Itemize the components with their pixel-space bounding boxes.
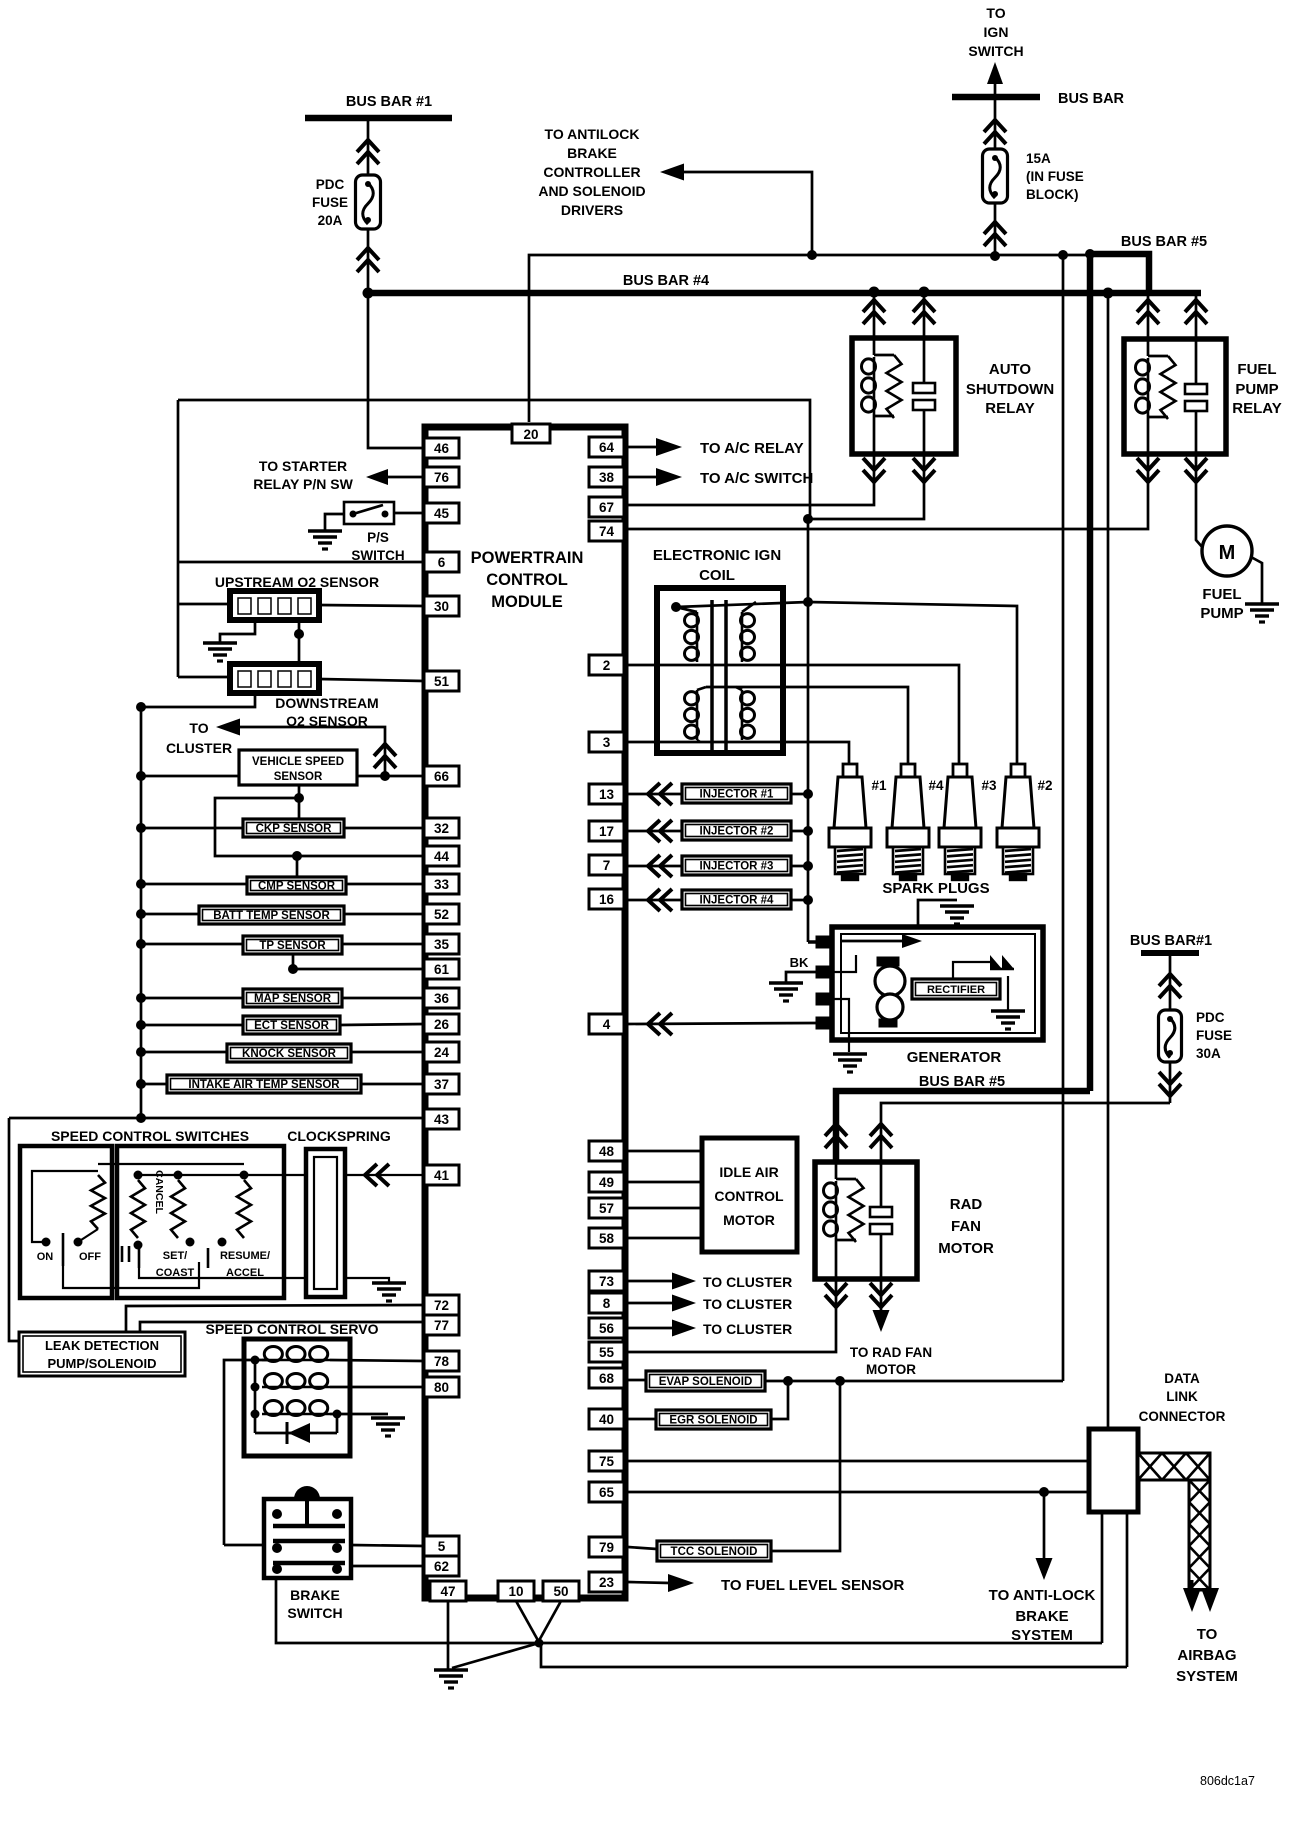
svg-text:FUEL: FUEL xyxy=(1237,361,1276,378)
svg-text:62: 62 xyxy=(434,1559,449,1574)
fuse F2 15A in fuse block xyxy=(983,149,1008,203)
ground speed control servo xyxy=(371,1416,405,1420)
svg-text:P/S: P/S xyxy=(367,530,389,545)
svg-text:TO CLUSTER: TO CLUSTER xyxy=(703,1296,792,1312)
pin 76 xyxy=(424,467,459,487)
sensor VEHICLE SPEED SENSOR xyxy=(239,750,357,785)
svg-text:BUS BAR#1: BUS BAR#1 xyxy=(1130,933,1212,949)
node junction servo coil3 / diode xyxy=(333,1410,342,1419)
switch contact bar left xyxy=(121,1246,124,1262)
svg-text:PUMP: PUMP xyxy=(1235,381,1278,398)
wire pin 10 to ground junction xyxy=(516,1601,540,1644)
svg-text:SPARK PLUGS: SPARK PLUGS xyxy=(882,880,989,897)
wire brake switch to ground junction xyxy=(276,1578,539,1643)
svg-text:MOTOR: MOTOR xyxy=(723,1212,775,1228)
pin 62 xyxy=(424,1556,459,1576)
svg-text:DRIVERS: DRIVERS xyxy=(561,202,623,218)
node junction antilock wire / ignition line xyxy=(807,250,817,260)
brake switch bar row3 xyxy=(273,1561,345,1566)
svg-text:47: 47 xyxy=(440,1584,455,1599)
brake switch contact dots row1 xyxy=(272,1509,282,1519)
svg-text:TO: TO xyxy=(189,720,208,736)
inductor servo coil 3 xyxy=(262,1413,330,1416)
wire bus bar to fuse 15A xyxy=(994,100,997,150)
bus bar #5 top segment xyxy=(1090,254,1149,293)
svg-text:79: 79 xyxy=(599,1540,614,1555)
svg-text:BLOCK): BLOCK) xyxy=(1026,187,1079,202)
pin 52 xyxy=(424,904,459,924)
pin 16 xyxy=(589,889,624,909)
svg-text:#3: #3 xyxy=(981,778,997,793)
svg-text:INTAKE AIR TEMP SENSOR: INTAKE AIR TEMP SENSOR xyxy=(188,1079,340,1091)
pin 80 xyxy=(424,1377,459,1397)
node junction rail / injector #4 xyxy=(803,895,813,905)
resistor R_resume xyxy=(237,1180,251,1238)
pin 44 xyxy=(424,846,459,866)
node junction sensor bus / TP xyxy=(136,939,146,949)
svg-text:DOWNSTREAM: DOWNSTREAM xyxy=(275,695,378,711)
pin 48 xyxy=(589,1141,624,1161)
svg-text:SHUTDOWN: SHUTDOWN xyxy=(966,381,1054,398)
svg-text:TO RAD FAN: TO RAD FAN xyxy=(850,1345,932,1360)
generator diode pack xyxy=(990,955,1014,969)
wire on/off switch output xyxy=(63,1262,199,1288)
wire bus bar #4 riser to data link connector xyxy=(1107,293,1110,1429)
svg-text:ON: ON xyxy=(37,1251,54,1263)
pin 3 xyxy=(589,732,624,752)
wire P/S switch to ground xyxy=(325,514,344,530)
servo common bus xyxy=(254,1360,257,1433)
wire pin 2 to coil and spark plug 3 xyxy=(628,665,959,764)
wire speed control box left edge xyxy=(9,1118,19,1341)
svg-text:CKP SENSOR: CKP SENSOR xyxy=(256,823,333,835)
wire pin 50 to ground junction xyxy=(536,1601,561,1646)
wire data link return (line B) xyxy=(541,1643,1127,1667)
svg-text:IDLE AIR: IDLE AIR xyxy=(719,1164,778,1180)
svg-text:TO FUEL LEVEL SENSOR: TO FUEL LEVEL SENSOR xyxy=(721,1577,905,1594)
wire sensor bus to CKP xyxy=(141,827,243,830)
pin 78 xyxy=(424,1351,459,1371)
svg-text:26: 26 xyxy=(434,1017,450,1032)
pin 75 xyxy=(589,1451,624,1471)
svg-text:TO: TO xyxy=(1197,1626,1218,1643)
svg-text:SET/: SET/ xyxy=(163,1250,187,1262)
node contact ON xyxy=(42,1238,51,1247)
wire ground junction to data link (line A) xyxy=(539,1642,1102,1645)
generator brush top xyxy=(877,957,899,966)
harness (shielded) data link to airbag vertical xyxy=(1189,1480,1210,1590)
connector chevron ASD contact feed xyxy=(913,300,935,312)
wire coil to spark plug 4 xyxy=(706,687,908,764)
node junction sensor bus / knock xyxy=(136,1047,146,1057)
node junction pin 65 / anti-lock xyxy=(1039,1487,1049,1497)
svg-text:65: 65 xyxy=(599,1485,615,1500)
wire pin 47 to ground xyxy=(447,1601,450,1669)
connector chevron on fuse 20A wire (lower) xyxy=(357,248,379,260)
wire sensor bus to TP xyxy=(141,943,243,946)
connector chevron injector #3 xyxy=(648,855,660,877)
wire injector #1 to ASD rail xyxy=(791,793,808,796)
wire injector #4 to ASD rail xyxy=(791,899,808,902)
svg-text:BUS BAR #4: BUS BAR #4 xyxy=(623,273,709,289)
node junction ignition line / bus bar #5 riser xyxy=(1085,249,1095,259)
switch lever set xyxy=(138,1248,141,1268)
brake switch contact dots row2 xyxy=(272,1543,282,1553)
svg-text:BUS BAR #1: BUS BAR #1 xyxy=(346,94,432,110)
resistor R_set xyxy=(171,1180,185,1238)
wire CKP to pin 32 xyxy=(344,827,424,830)
connector chevron injector #2 xyxy=(648,820,660,842)
svg-text:OFF: OFF xyxy=(79,1251,101,1263)
pin 66 xyxy=(424,766,459,786)
wire ground junction diagonal to ground xyxy=(452,1643,539,1668)
node junction bus bar #4 / data link feed riser xyxy=(1103,288,1114,299)
generator brush bottom xyxy=(879,1019,897,1027)
wire sensor bus to intake air temp xyxy=(141,1083,167,1086)
svg-text:VEHICLE SPEED: VEHICLE SPEED xyxy=(252,756,344,768)
module U1 POWERTRAIN CONTROL MODULE box xyxy=(425,427,625,1598)
wire servo coil2 to pin 80 xyxy=(330,1386,424,1389)
svg-text:33: 33 xyxy=(434,877,450,892)
wire ASD relay coil return to pin 67 xyxy=(628,454,874,505)
wire bus bar #4 to ASD relay coil xyxy=(873,293,876,338)
node junction TP / pin 61 xyxy=(288,964,298,974)
wire pin 64 to A/C relay xyxy=(628,446,656,449)
wire TP sensor to pin 61 xyxy=(293,954,424,969)
node junction 15A fuse / ignition line xyxy=(990,251,1000,261)
wire pin 23 to fuel level sensor xyxy=(628,1582,670,1583)
node junction bus bar #4 / ASD relay contact feed xyxy=(919,287,930,298)
wire ECT to pin 26 xyxy=(340,1024,424,1025)
connector chevron ASD coil return xyxy=(863,458,885,470)
motor M2 IDLE AIR CONTROL MOTOR box xyxy=(702,1138,797,1252)
solenoid INJECTOR #3 xyxy=(682,856,791,875)
wire upstream O2 to heater feed xyxy=(178,603,230,606)
connector chevron above 15A fuse xyxy=(984,120,1006,132)
svg-text:CANCEL: CANCEL xyxy=(153,1170,165,1214)
wire EGR solenoid to EVAP line xyxy=(771,1381,788,1419)
resistor R_cancel xyxy=(131,1180,145,1238)
svg-text:77: 77 xyxy=(434,1318,449,1333)
pin 7 xyxy=(589,855,624,875)
sensor TP SENSOR xyxy=(243,936,342,954)
svg-text:FUEL: FUEL xyxy=(1202,586,1241,603)
svg-text:4: 4 xyxy=(603,1017,611,1032)
winding lower left xyxy=(696,690,699,740)
wire spark plug ground header xyxy=(918,900,957,927)
pin 64 xyxy=(589,437,624,457)
svg-text:EGR SOLENOID: EGR SOLENOID xyxy=(669,1415,757,1427)
wire brake switch row2 to pin 5 xyxy=(351,1545,424,1546)
node junction sensor bus / MAP xyxy=(136,993,146,1003)
wire TP to pin 35 xyxy=(342,943,424,946)
svg-text:KNOCK SENSOR: KNOCK SENSOR xyxy=(242,1048,337,1060)
wire data link to ground return (right leg) xyxy=(1126,1512,1129,1667)
wire pin 56 to cluster xyxy=(628,1327,672,1330)
wire sensor bus to VSS xyxy=(141,775,239,778)
svg-text:EVAP SOLENOID: EVAP SOLENOID xyxy=(659,1376,753,1388)
svg-text:SPEED CONTROL SWITCHES: SPEED CONTROL SWITCHES xyxy=(51,1128,249,1144)
svg-text:IGN: IGN xyxy=(984,24,1009,40)
brake switch plunger dome xyxy=(294,1486,320,1499)
pin 68 xyxy=(589,1368,624,1388)
pin 41 xyxy=(424,1165,459,1185)
pin 77 xyxy=(424,1315,459,1335)
generator stub field+ xyxy=(816,936,834,948)
wire sensor bus to ECT xyxy=(141,1024,243,1027)
wire downstream O2 to pin 51 xyxy=(319,679,424,681)
pin 33 xyxy=(424,874,459,894)
wire pin 13 to injector #1 xyxy=(628,793,682,796)
svg-text:57: 57 xyxy=(599,1201,614,1216)
pin 40 xyxy=(589,1409,624,1429)
arrow pin 8 to cluster xyxy=(672,1295,696,1312)
wire sensor bus to MAP xyxy=(141,997,243,1000)
svg-text:CONTROLLER: CONTROLLER xyxy=(543,164,640,180)
wire brake switch row2 to servo xyxy=(224,1544,264,1547)
wire on/off internal top xyxy=(32,1171,98,1242)
spark plug #1 xyxy=(843,764,857,777)
generator stub BK xyxy=(816,966,834,978)
servo box SPEED CONTROL SERVO xyxy=(244,1339,350,1456)
wire rail from ASD junction down to generator xyxy=(807,519,810,942)
node junction VSS output / cluster wire xyxy=(380,771,390,781)
generator internal wire to rotor xyxy=(834,955,856,972)
solenoid EVAP SOLENOID xyxy=(628,1379,646,1382)
node junction servo coil 3 xyxy=(251,1410,260,1419)
pin 61 xyxy=(424,959,459,979)
wire pin 58 to IAC xyxy=(628,1237,702,1240)
svg-text:BUS BAR #5: BUS BAR #5 xyxy=(919,1074,1005,1090)
brake switch bar row1 xyxy=(273,1524,345,1529)
arrow to fuel level sensor xyxy=(668,1574,694,1592)
diode servo clamp xyxy=(336,1414,339,1433)
node junction servo coil 1 xyxy=(251,1356,260,1365)
svg-text:806dc1a7: 806dc1a7 xyxy=(1200,1774,1255,1788)
connector chevron rad fan relay coil return xyxy=(825,1283,847,1295)
ground spark plugs / generator case xyxy=(940,904,974,908)
pin 57 xyxy=(589,1198,624,1218)
svg-text:INJECTOR #2: INJECTOR #2 xyxy=(700,826,774,838)
svg-text:51: 51 xyxy=(434,674,450,689)
svg-text:40: 40 xyxy=(599,1412,614,1427)
connector chevron ASD coil feed xyxy=(863,300,885,312)
wire rad fan relay output arrow xyxy=(880,1279,883,1312)
transformer T1 electronic ignition coil box xyxy=(657,588,783,753)
sensor MAP SENSOR xyxy=(243,989,342,1007)
svg-text:BRAKE: BRAKE xyxy=(290,1587,340,1603)
svg-text:MOTOR: MOTOR xyxy=(938,1240,994,1257)
svg-text:41: 41 xyxy=(434,1168,450,1183)
svg-text:UPSTREAM O2 SENSOR: UPSTREAM O2 SENSOR xyxy=(215,574,379,590)
brake switch plunger stem xyxy=(305,1499,309,1526)
arrows to airbag system xyxy=(1183,1588,1201,1612)
svg-text:50: 50 xyxy=(553,1584,568,1599)
connector upstream O2 sensor xyxy=(230,591,319,620)
wire CMP sensor drop xyxy=(296,856,299,877)
svg-text:17: 17 xyxy=(599,824,614,839)
svg-text:BK: BK xyxy=(790,955,809,970)
svg-text:76: 76 xyxy=(434,470,450,485)
svg-text:FUSE: FUSE xyxy=(312,195,348,210)
wire P/S switch to pin 45 xyxy=(394,512,424,515)
svg-text:CMP SENSOR: CMP SENSOR xyxy=(258,881,336,893)
svg-text:36: 36 xyxy=(434,991,450,1006)
wire downstream O2 to heater feed xyxy=(178,676,230,679)
wire batt temp to pin 52 xyxy=(344,913,424,916)
svg-text:BRAKE: BRAKE xyxy=(1015,1608,1068,1625)
pin 36 xyxy=(424,988,459,1008)
wire pin 38 to A/C switch xyxy=(628,476,656,479)
wire speed control box top edge to pin 43 xyxy=(9,1117,424,1120)
arrow to A/C switch xyxy=(656,468,682,486)
svg-text:MAP SENSOR: MAP SENSOR xyxy=(254,993,332,1005)
sensor ECT SENSOR xyxy=(243,1016,340,1034)
svg-text:ELECTRONIC IGN: ELECTRONIC IGN xyxy=(653,547,781,564)
svg-text:49: 49 xyxy=(599,1175,614,1190)
svg-text:48: 48 xyxy=(599,1144,615,1159)
wire O2 feed to pin 6 xyxy=(178,561,424,564)
svg-text:M: M xyxy=(1219,542,1236,564)
spark plug #3 xyxy=(953,764,967,777)
svg-text:73: 73 xyxy=(599,1274,615,1289)
spark plug #2 xyxy=(1011,764,1025,777)
wire knock to pin 24 xyxy=(351,1051,424,1054)
node junction cancel resistor xyxy=(134,1171,143,1180)
wire ASD rail to generator field xyxy=(808,940,833,944)
node junction sensor bus / speed control box xyxy=(136,1113,146,1123)
pin 46 xyxy=(424,438,459,458)
svg-text:7: 7 xyxy=(603,858,611,873)
connector chevron below 15A fuse xyxy=(984,222,1006,234)
pin 79 xyxy=(589,1537,624,1557)
svg-text:16: 16 xyxy=(599,892,615,907)
pin 4 xyxy=(589,1014,624,1034)
svg-text:75: 75 xyxy=(599,1454,615,1469)
bus bar #5 main riser xyxy=(1087,254,1094,1091)
pin 47 xyxy=(430,1581,466,1601)
svg-text:PDC: PDC xyxy=(316,177,345,192)
ground P/S switch xyxy=(308,529,342,533)
svg-text:20A: 20A xyxy=(318,213,343,228)
svg-text:TP SENSOR: TP SENSOR xyxy=(259,940,326,952)
svg-text:SENSOR: SENSOR xyxy=(274,771,323,783)
node junction CKP / pin 44 loop xyxy=(294,793,304,803)
svg-text:RECTIFIER: RECTIFIER xyxy=(927,984,985,996)
sensor ground bus (left vertical) xyxy=(140,707,143,1117)
wire TCC solenoid to EVAP line xyxy=(771,1381,840,1551)
svg-text:TO A/C SWITCH: TO A/C SWITCH xyxy=(700,470,813,487)
generator diode to ground xyxy=(1007,976,1009,1010)
wire EVAP solenoid to ignition feed xyxy=(765,1380,1063,1383)
connector chevron injector #4 xyxy=(648,889,660,911)
node junction sensor bus / CMP xyxy=(136,879,146,889)
svg-text:CONTROL: CONTROL xyxy=(714,1188,784,1204)
pin 50 xyxy=(543,1581,579,1601)
svg-text:TO: TO xyxy=(986,5,1005,21)
winding upper left xyxy=(696,612,699,662)
switch lever resume xyxy=(207,1248,210,1268)
spark plug #4 xyxy=(901,764,915,777)
svg-text:67: 67 xyxy=(599,500,614,515)
svg-text:30: 30 xyxy=(434,599,449,614)
svg-text:#1: #1 xyxy=(871,778,887,793)
wire fuse 30A to rad fan relay contact xyxy=(881,1103,1170,1162)
motor M1 FUEL PUMP xyxy=(1202,526,1252,576)
node junction ignition line / EVAP feed riser xyxy=(1058,250,1068,260)
svg-text:61: 61 xyxy=(434,962,450,977)
wire pin 49 to IAC xyxy=(628,1181,702,1184)
svg-text:PUMP: PUMP xyxy=(1200,605,1243,622)
connector chevron ASD output xyxy=(913,458,935,470)
ground PCM power grounds xyxy=(434,1668,468,1672)
connector chevron FP contact feed xyxy=(1185,300,1207,312)
node junction EVAP / TCC xyxy=(835,1376,845,1386)
pin 2 xyxy=(589,655,624,675)
svg-text:68: 68 xyxy=(599,1371,615,1386)
svg-text:74: 74 xyxy=(599,524,615,539)
solenoid INJECTOR #4 xyxy=(682,890,791,909)
wire MAP to pin 36 xyxy=(342,997,424,1000)
svg-text:(IN FUSE: (IN FUSE xyxy=(1026,169,1084,184)
node junction sensor bus / VSS xyxy=(136,771,146,781)
wire VSS to CKP junction xyxy=(298,785,301,819)
svg-text:37: 37 xyxy=(434,1077,449,1092)
node junction rail / injector #3 xyxy=(803,861,813,871)
svg-text:44: 44 xyxy=(434,849,450,864)
pin 74 xyxy=(589,521,624,541)
svg-text:RELAY: RELAY xyxy=(1232,400,1281,417)
generator field wire with arrow xyxy=(841,940,908,943)
svg-text:CONNECTOR: CONNECTOR xyxy=(1139,1409,1226,1424)
node junction set resistor xyxy=(174,1171,183,1180)
svg-text:SPEED CONTROL SERVO: SPEED CONTROL SERVO xyxy=(206,1321,379,1337)
svg-text:RESUME/: RESUME/ xyxy=(220,1250,270,1262)
wire switch assembly to ground xyxy=(139,1268,389,1282)
svg-text:3: 3 xyxy=(603,735,611,750)
svg-text:46: 46 xyxy=(434,441,450,456)
pin 38 xyxy=(589,467,624,487)
transformer core xyxy=(710,600,714,750)
connector chevron on cluster wire xyxy=(374,744,396,756)
node junction servo coil 2 xyxy=(251,1383,260,1392)
connector chevron pin 4 wire xyxy=(648,1013,660,1035)
wire coil primary feed from rail xyxy=(676,602,808,607)
node junction sensor bus top xyxy=(136,702,146,712)
wire pin 65 to data link connector xyxy=(628,1491,1089,1494)
wire O2 heater feed left leg xyxy=(177,400,180,677)
wire leak detection pump to pin 77 xyxy=(140,1322,424,1332)
pin 20 (top) xyxy=(512,424,550,443)
svg-text:66: 66 xyxy=(434,769,450,784)
connector downstream O2 sensor xyxy=(230,664,319,693)
node junction pin74 wire / rail riser xyxy=(807,528,809,530)
connector chevron above fuse 30A xyxy=(1159,974,1181,986)
bus bar #4 xyxy=(366,290,1201,297)
node junction O2 sensor ground wire xyxy=(294,629,304,639)
wire pin 3 to coil and spark plug 1 xyxy=(628,742,849,764)
node contact set xyxy=(186,1238,195,1247)
brake switch contact dots row3 xyxy=(272,1564,282,1574)
ground generator xyxy=(833,1052,867,1056)
svg-text:LEAK DETECTION: LEAK DETECTION xyxy=(45,1338,159,1353)
wire fuse 20A down to pin 46 xyxy=(368,293,424,448)
pin 65 xyxy=(589,1482,624,1502)
wire pin 48 to IAC xyxy=(628,1150,702,1153)
wire coil secondary to spark plug 2 xyxy=(808,602,1017,764)
svg-text:MOTOR: MOTOR xyxy=(866,1362,916,1377)
svg-text:30A: 30A xyxy=(1196,1046,1221,1061)
